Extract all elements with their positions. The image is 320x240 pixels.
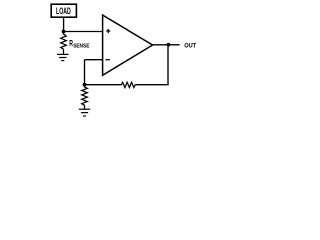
svg-text:SENSE: SENSE xyxy=(73,44,90,50)
wire LOAD to node A xyxy=(63,18,65,32)
resistor R3 (horizontal feedback) xyxy=(121,82,135,87)
ground (R2) xyxy=(79,109,90,116)
wire - input down to node B xyxy=(84,60,86,85)
wire feedback corner up to output node xyxy=(167,45,169,85)
op-amp + symbol xyxy=(106,29,110,33)
load box xyxy=(51,4,76,17)
svg-text:OUT: OUT xyxy=(184,42,196,49)
output node xyxy=(167,43,171,47)
resistor R2 (node B to ground) xyxy=(82,85,88,109)
op-amp U1 xyxy=(103,15,153,75)
resistor RSENSE xyxy=(61,32,67,54)
wire node B to R3 xyxy=(85,84,122,86)
svg-text:LOAD: LOAD xyxy=(56,6,71,16)
ground (RSENSE) xyxy=(57,54,69,60)
wire node A to op-amp + input xyxy=(64,31,104,33)
output wire xyxy=(152,44,180,46)
node B xyxy=(83,83,87,87)
wire R3 to feedback corner xyxy=(135,84,169,86)
op-amp - symbol xyxy=(106,59,110,61)
node A xyxy=(62,30,66,34)
wire op-amp - input xyxy=(85,59,104,61)
